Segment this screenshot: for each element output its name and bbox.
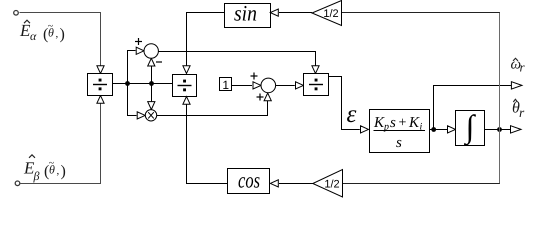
- svg-text:r: r: [520, 60, 526, 75]
- wire half-top to sin: [279, 12, 312, 14]
- gain half triangle bottom: [313, 170, 343, 198]
- label Ealpha hat: [24, 20, 30, 23]
- divide sign block2: [178, 80, 192, 92]
- cos block: [228, 169, 270, 194]
- divider block 3: [304, 74, 329, 96]
- svg-text:): ): [60, 26, 65, 43]
- plus sign sum2 lower: [257, 94, 264, 101]
- wire node A down to multiplier: [128, 84, 137, 116]
- svg-text:β: β: [33, 169, 40, 183]
- svg-text:1: 1: [222, 78, 229, 92]
- input terminal Ealpha: [14, 11, 19, 16]
- label Ealpha: [19, 21, 65, 43]
- wire Ebeta to divider1 bottom: [20, 103, 101, 183]
- wire cos output to divider2 bottom: [187, 104, 228, 183]
- wire node B down to multiplier top: [151, 84, 153, 102]
- divider block 2: [173, 75, 197, 97]
- wire Ealpha to divider1 top: [20, 13, 101, 67]
- arrow into divider2 top: [183, 66, 190, 74]
- input terminal Ebeta: [15, 181, 20, 186]
- arrow into sin right: [270, 9, 278, 16]
- wire divider3 output to PI block: [329, 77, 360, 130]
- svg-text:,: ,: [56, 28, 59, 40]
- arrow into sum2 bottom: [264, 93, 271, 101]
- svg-text:ε: ε: [347, 101, 357, 128]
- wire node A up to sum1: [128, 51, 136, 84]
- arrow into sum2 left: [253, 82, 261, 89]
- wire sin output to divider2 top: [187, 13, 225, 67]
- wire multiplier output to sum2 bottom: [157, 101, 268, 116]
- PI fraction bar: [374, 130, 426, 132]
- arrow into divider3 left: [296, 82, 304, 89]
- svg-text:r: r: [519, 105, 525, 120]
- wire half-bottom to cos: [279, 183, 313, 185]
- arrow into multiplier top: [148, 102, 155, 110]
- sin block: [225, 4, 271, 28]
- junction dot B: [149, 81, 154, 86]
- svg-text:~: ~: [49, 158, 55, 169]
- PI numerator Kp s + Ki: [373, 115, 423, 133]
- wire PI output to integrator: [429, 129, 447, 131]
- junction dot C: [431, 127, 436, 132]
- svg-text:,: ,: [57, 165, 60, 177]
- minus sign sum1: [156, 61, 162, 63]
- label theta hat: [513, 99, 517, 102]
- output arrow omega_r: [511, 82, 522, 89]
- svg-text:α: α: [30, 29, 37, 43]
- arrow into sum1 left: [136, 47, 144, 54]
- feedback wire top run to half gain: [342, 12, 500, 14]
- junction dot A: [125, 81, 130, 86]
- sum junction 2: [261, 78, 276, 93]
- plus sign sum1: [135, 38, 142, 45]
- svg-text:cos: cos: [238, 168, 260, 193]
- wire constant to sum2: [232, 85, 252, 87]
- X glyph multiplier: [148, 112, 154, 118]
- svg-text:sin: sin: [234, 1, 257, 26]
- arrow into multiplier left: [137, 112, 145, 119]
- wire sum1 output to divider3 top: [158, 52, 315, 67]
- label omega hat: [513, 58, 518, 61]
- arrow into PI block: [361, 126, 369, 133]
- svg-text:K: K: [408, 115, 420, 131]
- arrow into divider1 bottom: [97, 96, 104, 104]
- feedback wire bottom run to half gain: [343, 183, 500, 185]
- wire divider1 output: [113, 83, 173, 85]
- divide sign block1: [93, 79, 107, 91]
- arrow into sum1 bottom: [148, 58, 155, 66]
- arrow into divider3 top: [312, 66, 319, 74]
- wire integrator output: [485, 129, 511, 131]
- label Ebeta hat: [29, 155, 35, 158]
- svg-text:+: +: [399, 116, 407, 131]
- arrow into divider1 top: [97, 66, 104, 74]
- feedback wire vertical from theta node: [499, 13, 501, 184]
- gain half triangle top: [312, 1, 342, 26]
- integrator block: [456, 111, 485, 146]
- sum junction 1: [144, 44, 158, 58]
- wire node B up to sum1 bottom: [151, 66, 153, 83]
- divide sign block3: [309, 79, 323, 91]
- svg-text:1/2: 1/2: [324, 178, 339, 190]
- PI controller block: [370, 110, 430, 153]
- svg-text:1/2: 1/2: [323, 8, 338, 20]
- divider block 1: [88, 74, 113, 96]
- wire omega branch: [434, 86, 512, 130]
- multiplier circle: [145, 110, 156, 121]
- wire sum2 output to divider3 left: [276, 85, 295, 87]
- plus sign sum2 upper: [251, 73, 258, 80]
- arrow into cos right: [270, 180, 278, 187]
- label omega_r: [511, 57, 526, 75]
- label theta_r: [512, 99, 525, 120]
- arrow into divider2 bottom: [183, 97, 190, 105]
- svg-text:s: s: [396, 135, 402, 151]
- constant block 1: [220, 78, 232, 91]
- junction dot D: [497, 127, 502, 132]
- svg-text:): ): [61, 163, 66, 180]
- arrow into integrator: [448, 126, 456, 133]
- label Ebeta: [23, 158, 66, 183]
- output arrow theta_r: [511, 126, 522, 133]
- svg-text:s: s: [390, 115, 396, 131]
- svg-text:~: ~: [48, 21, 54, 32]
